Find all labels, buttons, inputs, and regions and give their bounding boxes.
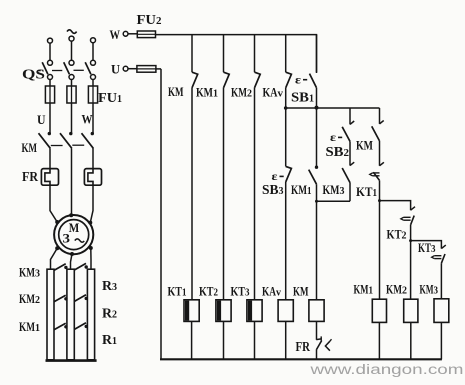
svg-text:W: W bbox=[110, 28, 121, 42]
svg-text:KM: KM bbox=[356, 138, 373, 153]
svg-text:2: 2 bbox=[402, 286, 407, 297]
svg-text:KM: KM bbox=[386, 282, 402, 297]
svg-text:KM: KM bbox=[420, 282, 434, 297]
svg-text:1: 1 bbox=[213, 89, 218, 100]
svg-text:KT: KT bbox=[418, 240, 431, 255]
svg-text:KM: KM bbox=[323, 182, 340, 197]
svg-text:U: U bbox=[111, 62, 121, 77]
svg-text:2: 2 bbox=[112, 310, 117, 321]
svg-text:1: 1 bbox=[309, 94, 314, 105]
svg-text:1: 1 bbox=[373, 188, 378, 199]
svg-text:KM: KM bbox=[19, 319, 35, 334]
svg-text:KM: KM bbox=[22, 140, 38, 155]
svg-text:3: 3 bbox=[245, 288, 250, 299]
svg-text:1: 1 bbox=[112, 336, 117, 347]
svg-text:U: U bbox=[37, 112, 46, 127]
svg-text:KA: KA bbox=[263, 85, 278, 100]
svg-text:2: 2 bbox=[156, 16, 162, 27]
svg-text:KM: KM bbox=[196, 85, 213, 100]
svg-text:KT: KT bbox=[168, 284, 183, 299]
svg-text:1: 1 bbox=[35, 323, 40, 334]
svg-text:2: 2 bbox=[214, 288, 219, 299]
svg-text:W: W bbox=[82, 112, 93, 127]
svg-text:ε: ε bbox=[330, 132, 336, 144]
svg-text:2: 2 bbox=[344, 148, 350, 159]
svg-text:2: 2 bbox=[402, 231, 407, 242]
svg-text:3: 3 bbox=[112, 282, 117, 293]
svg-text:KM: KM bbox=[19, 265, 35, 280]
svg-text:1: 1 bbox=[369, 286, 374, 297]
svg-text:3: 3 bbox=[35, 269, 40, 280]
svg-text:ε: ε bbox=[295, 74, 301, 86]
svg-text:KM: KM bbox=[231, 85, 247, 100]
svg-text:SB: SB bbox=[262, 183, 279, 198]
svg-text:3: 3 bbox=[63, 231, 71, 245]
svg-text:QS: QS bbox=[22, 68, 45, 83]
svg-text:KM: KM bbox=[354, 282, 369, 297]
svg-text:3: 3 bbox=[434, 286, 439, 297]
svg-text:2: 2 bbox=[247, 89, 252, 100]
svg-text:KT: KT bbox=[199, 284, 214, 299]
svg-text:3: 3 bbox=[340, 186, 345, 197]
svg-text:FU: FU bbox=[98, 91, 117, 106]
svg-text:KM: KM bbox=[168, 84, 184, 99]
svg-text:FR: FR bbox=[22, 169, 38, 184]
svg-text:ε: ε bbox=[272, 171, 278, 183]
svg-text:v: v bbox=[278, 89, 284, 100]
svg-text:1: 1 bbox=[307, 186, 312, 197]
svg-text:3: 3 bbox=[279, 186, 284, 197]
svg-text:KM: KM bbox=[293, 284, 309, 299]
svg-text:www.diangon.com: www.diangon.com bbox=[309, 362, 463, 377]
svg-text:KA: KA bbox=[262, 284, 276, 299]
svg-text:KM: KM bbox=[19, 291, 35, 306]
svg-text:1: 1 bbox=[182, 288, 187, 299]
svg-text:KT: KT bbox=[231, 284, 246, 299]
svg-text:SB: SB bbox=[326, 145, 344, 160]
svg-text:3: 3 bbox=[431, 244, 436, 255]
svg-text:v: v bbox=[276, 288, 282, 299]
svg-text:1: 1 bbox=[117, 94, 122, 105]
svg-text:KT: KT bbox=[387, 227, 402, 242]
svg-text:FR: FR bbox=[296, 339, 311, 354]
svg-text:FU: FU bbox=[137, 13, 157, 28]
svg-text:SB: SB bbox=[291, 91, 309, 106]
svg-text:KM: KM bbox=[291, 182, 307, 197]
svg-text:KT: KT bbox=[356, 184, 373, 199]
svg-text:M: M bbox=[69, 220, 80, 235]
svg-text:2: 2 bbox=[35, 295, 40, 306]
